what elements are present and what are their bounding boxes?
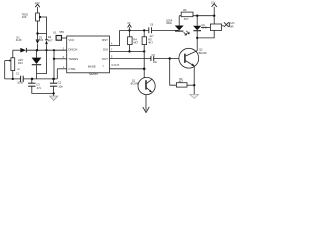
svg-text:BC548: BC548: [131, 83, 139, 86]
wire bottom rail: [5, 78, 21, 80]
resistor R4: [128, 30, 133, 51]
resistor R6: [181, 12, 193, 17]
label D3: [17, 58, 23, 71]
label R2: [48, 35, 53, 42]
zener D2: [36, 40, 40, 50]
wire top rail right: [193, 15, 214, 17]
node bus R5: [143, 29, 145, 31]
wire Q2 emitter: [193, 66, 195, 94]
node power right: [213, 15, 215, 17]
node bus R4: [128, 29, 130, 31]
svg-text:RST: RST: [102, 38, 108, 42]
capacitor C1: [21, 76, 24, 82]
node ground junction: [52, 92, 54, 94]
svg-text:BASE: BASE: [88, 65, 96, 69]
svg-text:VCC: VCC: [68, 38, 74, 42]
svg-text:DIS: DIS: [103, 48, 108, 52]
node C4 junction: [52, 78, 55, 81]
wire Q1 emitter down arrow: [143, 95, 149, 113]
label U1: [53, 30, 64, 35]
svg-text:C6: C6: [150, 23, 154, 27]
capacitor C4: [50, 79, 57, 94]
LED LED4: [175, 16, 190, 35]
wire vcc bus: [120, 29, 149, 31]
node P2 bottom: [12, 78, 14, 80]
node D4 top: [196, 15, 198, 17]
node P1 loop junction: [36, 32, 38, 34]
capacitor C3: [28, 79, 53, 94]
transistor Q2: [179, 48, 199, 68]
wire pin 6: [54, 58, 67, 60]
svg-text:4K7: 4K7: [48, 38, 53, 42]
wire Q2 collector: [196, 31, 198, 51]
label R9: [179, 78, 184, 84]
power arrow +9V mid: [127, 22, 131, 30]
wire C5 to Q2 base: [154, 58, 186, 60]
label Q1: [131, 78, 139, 85]
node Q2 base branch: [169, 57, 171, 59]
label C3: [36, 82, 41, 90]
ground Q2: [190, 94, 199, 98]
wire vcc bus right part: [152, 29, 180, 31]
label R5: [148, 37, 153, 44]
IC U1 555: [67, 36, 110, 73]
svg-text:NE555: NE555: [89, 72, 98, 76]
label D2: [39, 36, 44, 42]
diode R2 branch: [45, 40, 48, 44]
label TR1: [22, 12, 29, 19]
wire R2 branch down to D3 cathode: [37, 34, 47, 74]
wire pin 3 out: [110, 68, 145, 70]
label C5: [152, 53, 158, 64]
transistor Q1: [138, 77, 155, 94]
capacitor C5: [151, 56, 154, 61]
svg-text:10K: 10K: [22, 15, 27, 19]
svg-text:OUT: OUT: [102, 57, 108, 61]
resistor R7: [197, 16, 221, 38]
wire pin 1: [57, 68, 66, 70]
label C4: [58, 81, 64, 89]
label Q2: [199, 48, 207, 55]
svg-text:C3: C3: [36, 82, 40, 86]
svg-text:555: 555: [59, 30, 64, 34]
svg-text:8R: 8R: [230, 25, 233, 28]
diode D3 (power, down): [32, 50, 42, 79]
svg-text:C5: C5: [152, 53, 156, 57]
svg-text:4K7: 4K7: [148, 40, 153, 44]
IC pin names: [68, 38, 108, 71]
node D1 cathode junction: [36, 49, 38, 51]
label R6: [183, 8, 189, 21]
svg-text:4148: 4148: [16, 39, 22, 42]
svg-text:4K7: 4K7: [184, 17, 189, 21]
label C1: [16, 72, 24, 85]
node C3 junction: [31, 78, 34, 81]
svg-text:4148: 4148: [202, 27, 208, 30]
svg-text:R6: R6: [183, 8, 187, 12]
wire trimpot wiper loop: [38, 17, 47, 34]
node R2 branch tap: [45, 49, 47, 51]
wire top rail left: [179, 15, 181, 17]
pot P2: [5, 50, 15, 79]
svg-text:4K7: 4K7: [179, 81, 184, 84]
wire pin 1 to rail: [56, 69, 58, 79]
svg-text:DIN: DIN: [18, 61, 23, 65]
svg-text:12V: 12V: [211, 1, 216, 4]
label D4: [202, 24, 208, 30]
label LP1: [230, 22, 235, 28]
svg-text:3 OUT: 3 OUT: [111, 63, 119, 67]
svg-text:5V6: 5V6: [39, 39, 44, 42]
node R5 wire cross: [143, 50, 145, 52]
ground: [50, 93, 58, 100]
node Q2 emitter / R9: [193, 84, 195, 86]
svg-text:10n: 10n: [58, 85, 63, 89]
node pins 2/6: [53, 58, 55, 60]
svg-text:10n: 10n: [153, 60, 158, 64]
lamp LP1: [222, 22, 230, 27]
node pin2 tap: [53, 49, 55, 51]
wire trimpot to node: [37, 21, 39, 40]
pin 8/4 tie box: [56, 36, 67, 41]
svg-text:100u: 100u: [17, 81, 23, 85]
node R4 bottom: [128, 50, 130, 52]
svg-text:BD139: BD139: [199, 51, 207, 55]
node Q1 base: [143, 68, 146, 71]
svg-text:RED: RED: [167, 22, 172, 25]
wire pin 7: [110, 50, 145, 52]
diode D1: [13, 48, 67, 53]
wire pins 2/6 vertical: [53, 50, 55, 79]
node D4 bottom wire: [196, 37, 198, 39]
trimpot TR1: [36, 13, 42, 21]
wire bottom rail right part: [23, 78, 57, 80]
svg-text:DISCH: DISCH: [68, 48, 77, 52]
capacitor C6: [149, 27, 152, 33]
wire R7 left: [201, 26, 210, 28]
resistor R5: [142, 30, 147, 78]
wire pin 4 to bus: [110, 30, 120, 45]
power +12V left: [35, 1, 40, 13]
svg-text:C1: C1: [16, 72, 20, 76]
svg-text:THRES: THRES: [68, 57, 78, 61]
wire pin 5: [110, 58, 151, 60]
svg-text:BY: BY: [17, 69, 20, 71]
svg-text:4K7: 4K7: [133, 40, 138, 44]
diode D4: [193, 16, 201, 31]
label LED4: [166, 19, 173, 25]
label C6: [149, 23, 154, 39]
label R4: [133, 37, 138, 44]
resistor R9: [170, 59, 195, 88]
pin numbers left: [63, 47, 65, 69]
power arrow +12V right: [211, 1, 217, 15]
label D1: [16, 35, 22, 42]
svg-text:47n: 47n: [37, 86, 42, 90]
pin numbers right: [111, 43, 113, 59]
svg-text:U1: U1: [53, 31, 57, 35]
svg-text:CTRL: CTRL: [68, 67, 76, 71]
